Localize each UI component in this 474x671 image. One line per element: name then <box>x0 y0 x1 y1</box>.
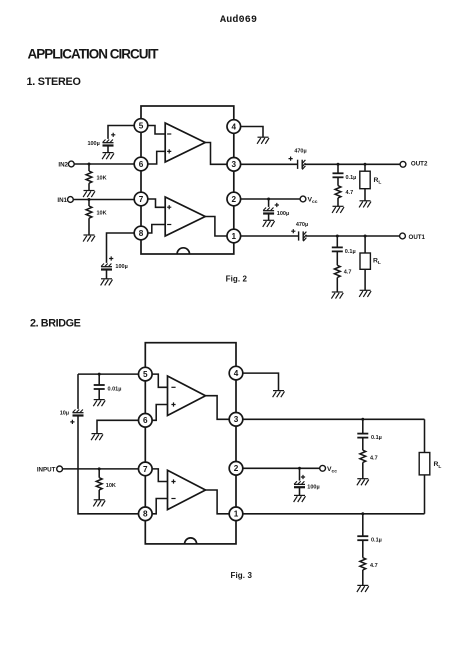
wire pin5 to C1 <box>108 126 135 139</box>
resistor R6 4.7 <box>360 450 366 462</box>
svg-text:100µ: 100µ <box>277 211 289 217</box>
wire junction to C10 <box>362 419 364 433</box>
svg-text:0.1µ: 0.1µ <box>371 538 382 544</box>
svg-text:100µ: 100µ <box>115 264 127 270</box>
node OUT1/RL junction <box>364 235 367 238</box>
svg-text:4: 4 <box>234 369 239 378</box>
wire pin1 line <box>243 513 425 515</box>
resistor R3 4.7 <box>335 186 341 198</box>
ground (C11) <box>294 495 306 502</box>
wire junction to RL1 <box>364 164 366 171</box>
pin 1 (U2) <box>229 507 243 521</box>
svg-text:7: 7 <box>139 195 144 204</box>
wire C7 to R4 <box>336 251 338 265</box>
wire pin2 to Vcc <box>243 467 321 469</box>
svg-text:1. STEREO: 1. STEREO <box>27 76 81 88</box>
wire R1 to ground <box>88 183 90 190</box>
svg-text:4.7: 4.7 <box>346 190 354 196</box>
op-amp A1 <box>165 123 205 162</box>
wire R7 to ground <box>362 570 364 586</box>
capacitor C11 100µ <box>294 481 305 487</box>
wire pin4 to ground <box>243 373 279 391</box>
pin 8 (U1) <box>134 226 148 240</box>
resistor R2 10K <box>86 206 92 218</box>
polarity + (C6) <box>291 229 295 233</box>
wire A2 output to pin1 <box>205 217 227 237</box>
ground (C2) <box>101 279 113 286</box>
svg-text:100µ: 100µ <box>87 141 99 147</box>
wire RL1 to ground <box>364 189 366 201</box>
capacitor C6 470µ <box>299 231 307 241</box>
ground (C5) <box>263 220 275 227</box>
svg-text:0.1µ: 0.1µ <box>371 435 382 441</box>
wire RL3 to pin1 line <box>424 475 426 514</box>
node OUT1/C7 junction <box>336 235 339 238</box>
svg-text:Fig. 2: Fig. 2 <box>226 275 248 284</box>
capacitor C2 100µ <box>101 264 112 270</box>
svg-text:8: 8 <box>143 510 148 519</box>
pin 6 (U2) <box>139 414 153 428</box>
wire pin5 to A3 inverting input <box>152 374 168 387</box>
wire junction to C11 <box>299 468 301 480</box>
pin 4 (U1) <box>227 120 241 134</box>
wire pin1 to C6 <box>240 235 298 237</box>
wire C1 to ground <box>107 146 109 153</box>
capacitor C8 0.01µ <box>94 385 105 389</box>
pin 2 (U1) <box>227 192 241 206</box>
node IN2/R1 junction <box>88 163 91 166</box>
svg-text:2: 2 <box>232 195 237 204</box>
node Vcc/C5 junction <box>267 198 270 201</box>
polarity + (C1) <box>111 133 115 137</box>
node OUT2/C4 junction <box>337 163 340 166</box>
pin 7 (U1) <box>134 192 148 206</box>
wire pin3 to C3 <box>240 163 297 165</box>
wire pin8 to A2 inverting input <box>148 225 166 234</box>
wire junction to C4 <box>337 164 339 173</box>
wire to C9 <box>77 374 79 409</box>
ground (R3) <box>332 206 344 213</box>
wire A4 output to pin1 <box>206 490 230 514</box>
terminal IN2 <box>68 161 74 167</box>
wire pin6 to A1 non-inverting input <box>148 151 166 164</box>
pin 6 (U1) <box>134 157 148 171</box>
capacitor C12 0.1µ <box>357 536 368 540</box>
svg-text:1: 1 <box>234 510 239 519</box>
svg-text:4.7: 4.7 <box>370 563 378 569</box>
svg-text:10K: 10K <box>106 483 116 489</box>
svg-text:1: 1 <box>232 232 237 241</box>
ground (R4) <box>331 292 343 299</box>
svg-text:0.1µ: 0.1µ <box>345 249 356 255</box>
wire pin7 to A4 non-inverting input <box>152 469 168 482</box>
terminal INPUT <box>57 466 63 472</box>
terminal OUT1 <box>400 233 406 239</box>
svg-text:2. BRIDGE: 2. BRIDGE <box>30 318 81 330</box>
node pin5/C8 junction <box>98 373 101 376</box>
svg-text:4: 4 <box>232 122 237 131</box>
resistor RL3 (load) <box>419 453 430 475</box>
wire C9 to pin8 <box>78 416 139 514</box>
polarity + (C9) <box>70 420 74 424</box>
wire C4 to R3 <box>337 177 339 185</box>
capacitor C7 0.1µ <box>332 247 343 251</box>
pin 5 (U1) <box>134 119 148 133</box>
svg-text:Fig. 3: Fig. 3 <box>231 571 253 580</box>
ground (R5) <box>93 500 105 507</box>
wire pin4 to ground <box>240 127 263 138</box>
wire C8 to ground <box>98 389 100 400</box>
wire pin6 to ground <box>97 420 139 433</box>
wire C11 to ground <box>299 487 301 495</box>
resistor RL1 (load) <box>360 171 370 189</box>
resistor RL2 (load) <box>360 253 370 269</box>
svg-text:0.01µ: 0.01µ <box>108 386 122 392</box>
capacitor C9 10µ <box>73 410 84 416</box>
wire pin8 to C2 <box>107 233 135 263</box>
svg-text:10K: 10K <box>97 176 107 182</box>
wire IN2 to pin6 <box>74 163 135 165</box>
wire R2 to ground <box>88 218 90 235</box>
svg-text:IN1: IN1 <box>57 197 67 204</box>
svg-text:7: 7 <box>143 465 148 474</box>
svg-text:0.1µ: 0.1µ <box>346 175 357 181</box>
terminal OUT2 <box>400 161 406 167</box>
op-amp A3 <box>168 376 206 416</box>
svg-text:2: 2 <box>234 464 239 473</box>
svg-text:Aud069: Aud069 <box>220 14 257 26</box>
svg-text:470µ: 470µ <box>294 148 306 154</box>
polarity + (C3) <box>289 157 293 161</box>
svg-text:3: 3 <box>234 415 239 424</box>
svg-text:INPUT: INPUT <box>37 466 56 473</box>
wire C12 to R7 <box>362 540 364 558</box>
polarity + (C11) <box>301 475 305 479</box>
pin 8 (U2) <box>139 507 153 521</box>
wire RL2 to ground <box>364 269 366 290</box>
op-amp A2 <box>165 197 205 236</box>
wire R5 to ground <box>98 490 100 500</box>
op-amp A4 <box>168 470 206 509</box>
ground (pin4 U2) <box>273 391 285 398</box>
wire IN1 to pin7 <box>73 199 135 201</box>
svg-text:OUT1: OUT1 <box>409 234 426 241</box>
svg-text:IN2: IN2 <box>58 162 68 169</box>
capacitor C5 100µ <box>263 208 274 214</box>
svg-text:APPLICATION CIRCUIT: APPLICATION CIRCUIT <box>28 47 160 62</box>
ground (RL2) <box>359 290 371 297</box>
wire C10 to R6 <box>362 438 364 451</box>
svg-text:470µ: 470µ <box>296 222 308 228</box>
svg-text:4.7: 4.7 <box>344 269 352 275</box>
resistor R1 10K <box>86 171 92 183</box>
wire A1 output to pin3 <box>205 143 227 165</box>
op-amp IC U1 body <box>141 106 234 254</box>
svg-text:5: 5 <box>139 121 144 130</box>
wire C5 to ground <box>268 214 270 221</box>
wire pin5 feedback line <box>78 373 139 375</box>
svg-text:6: 6 <box>143 416 148 425</box>
svg-text:3: 3 <box>232 160 237 169</box>
wire C6 to OUT1 <box>306 235 400 237</box>
wire C2 to ground <box>106 270 108 279</box>
pin 3 (U1) <box>227 158 241 172</box>
node OUT2/RL junction <box>364 163 367 166</box>
ground (C8) <box>93 400 105 407</box>
terminal Vcc <box>300 196 306 202</box>
svg-text:OUT2: OUT2 <box>411 161 428 168</box>
ground (RL1) <box>359 201 371 208</box>
ground (pin6) <box>91 434 103 441</box>
resistor R5 10K <box>96 478 102 490</box>
wire pin7 to A2 non-inverting input <box>148 199 166 207</box>
resistor R4 4.7 <box>334 265 340 277</box>
wire INPUT to pin7 <box>62 468 139 470</box>
pin 1 (U1) <box>227 229 241 243</box>
ground (R2) <box>83 235 95 242</box>
node IN1/R2 junction <box>88 198 91 201</box>
wire pin3 line to RL3 <box>424 419 426 452</box>
svg-text:10K: 10K <box>97 211 107 217</box>
op-amp IC U2 body <box>145 343 236 544</box>
wire R6 to ground <box>362 462 364 478</box>
capacitor C3 470µ <box>298 160 306 170</box>
ground (R7) <box>357 585 369 592</box>
svg-text:5: 5 <box>143 370 148 379</box>
wire pin3 line <box>243 418 425 420</box>
svg-text:100µ: 100µ <box>307 485 319 491</box>
wire junction to R5 <box>98 469 100 478</box>
polarity + (C2) <box>109 256 113 260</box>
svg-text:6: 6 <box>139 160 144 169</box>
wire pin8 to A4 inverting input <box>152 499 168 514</box>
svg-text:8: 8 <box>139 229 144 238</box>
wire junction to R2 <box>88 200 90 207</box>
polarity + (C5) <box>275 203 279 207</box>
resistor R7 4.7 <box>360 558 366 570</box>
wire pin2 to Vcc <box>240 198 300 200</box>
capacitor C1 100µ <box>103 140 114 146</box>
capacitor C10 0.1µ <box>357 434 368 438</box>
node INPUT/R5 junction <box>98 467 101 470</box>
ground (C1) <box>102 153 114 160</box>
terminal Vcc (U2) <box>320 465 326 471</box>
node Vcc/C11 junction <box>298 467 301 470</box>
ground (R6) <box>357 479 369 486</box>
wire junction to C8 <box>98 374 100 385</box>
node pin3/C10 junction <box>361 418 364 421</box>
svg-text:4.7: 4.7 <box>370 455 378 461</box>
wire R3 to ground <box>337 198 339 206</box>
ground (R1) <box>83 191 95 198</box>
wire junction to R1 <box>88 164 90 171</box>
wire junction to C5 <box>268 199 270 207</box>
pin 7 (U2) <box>139 462 153 476</box>
wire pin6 to A3 non-inverting input <box>152 405 168 421</box>
capacitor C4 0.1µ <box>333 173 344 177</box>
wire A3 output to pin3 <box>206 396 230 420</box>
pin 5 (U2) <box>139 367 153 381</box>
wire pin5 to A1 inverting input <box>148 126 166 135</box>
wire R4 to ground <box>336 278 338 293</box>
wire junction to RL2 <box>364 236 366 253</box>
pin 4 (U2) <box>229 366 243 380</box>
wire junction to C7 <box>336 236 338 247</box>
wire C3 to OUT2 <box>305 163 400 165</box>
wire junction to C12 <box>362 514 364 536</box>
pin 2 (U2) <box>229 462 243 476</box>
pin 3 (U2) <box>229 413 243 427</box>
ground (pin4) <box>257 137 269 144</box>
terminal IN1 <box>68 197 74 203</box>
node pin1/C12 junction <box>361 512 364 515</box>
svg-text:10µ: 10µ <box>60 410 69 416</box>
